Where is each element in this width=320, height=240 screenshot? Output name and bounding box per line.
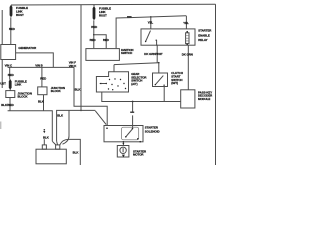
wire lower bus left — [8, 111, 53, 142]
node F2 split — [93, 34, 95, 36]
svg-text:BLOCK: BLOCK — [18, 94, 29, 98]
node clutch output — [163, 85, 164, 86]
wire junction block 2 to lower bus — [43, 95, 45, 111]
node solenoid terminal 1 — [106, 127, 108, 129]
node clutch pivot — [155, 84, 156, 85]
wire F2 split — [94, 35, 106, 48]
ignition start contact box — [141, 29, 195, 45]
svg-text:RED: RED — [91, 25, 97, 29]
wire battery funnel — [52, 141, 57, 145]
wire battery feed stem — [43, 139, 45, 145]
node battery feed dot — [44, 129, 46, 131]
node bus2 junction — [150, 16, 152, 18]
svg-text:VIN B: VIN B — [35, 63, 42, 67]
svg-text:RELAY: RELAY — [198, 38, 207, 42]
ignition switch box — [86, 49, 120, 61]
clutch switch blade — [155, 76, 163, 85]
wire right border feed — [215, 4, 217, 165]
node solenoid bottom r — [139, 141, 141, 143]
switch blade (ignition contact) — [146, 31, 151, 42]
svg-text:STARTER: STARTER — [198, 29, 212, 33]
ground blob under motor — [122, 155, 125, 158]
wire long vertical from top bus — [80, 5, 82, 111]
wire VIN bus — [8, 66, 74, 68]
wire S to solenoid — [132, 102, 134, 129]
wire left border segment upper — [1, 10, 3, 45]
relay coil — [186, 33, 189, 44]
svg-text:RED: RED — [8, 73, 14, 77]
solenoid inner contact frame — [122, 127, 139, 140]
wire solenoid to motor — [122, 142, 124, 146]
arrow to battery — [43, 131, 45, 133]
node solenoid contact b — [137, 138, 139, 140]
connector C (S wire) — [130, 111, 134, 113]
wire dk grn/wht horizontal — [114, 63, 159, 65]
gear selector switch box — [96, 72, 128, 92]
left edge smudge — [0, 122, 1, 130]
wire lower bus right + battery drop — [57, 110, 96, 141]
svg-text:RED: RED — [103, 38, 109, 42]
wire top feed bus — [11, 3, 216, 6]
starter motor circle — [120, 147, 126, 153]
svg-text:(A/T): (A/T) — [131, 82, 137, 86]
wire relay output (DK GRN) — [187, 45, 189, 90]
svg-text:RED: RED — [40, 76, 46, 80]
svg-text:(M/T): (M/T) — [171, 81, 178, 85]
svg-text:VIN K: VIN K — [69, 64, 77, 68]
node ignition contact output — [156, 40, 157, 41]
node lower bus / long vertical — [80, 110, 82, 112]
node solenoid bottom m — [123, 141, 125, 143]
svg-text:VIN C: VIN C — [5, 63, 13, 67]
solenoid blade — [126, 129, 133, 137]
clutch start switch box — [153, 73, 168, 87]
fusible link F3 (lower left) — [9, 79, 12, 90]
svg-text:SWITCH: SWITCH — [121, 51, 132, 55]
wire F3 to junction block — [9, 89, 11, 90]
gear selector contacts — [100, 83, 106, 85]
starter motor bracket — [117, 146, 129, 158]
svg-text:YEL: YEL — [148, 20, 154, 24]
svg-text:BLK: BLK — [57, 114, 64, 118]
wire to clutch switch — [158, 63, 160, 73]
wire YEL drop to relay — [185, 16, 188, 33]
svg-text:BLK: BLK — [38, 100, 45, 104]
svg-text:RUST: RUST — [99, 13, 107, 17]
junction block 2 box — [38, 87, 47, 95]
wire VIN B drop — [41, 67, 43, 87]
node solenoid S terminal — [132, 128, 134, 130]
fusible link F1 (top left) — [10, 5, 13, 17]
svg-text:YEL: YEL — [183, 21, 189, 25]
pass-key decoder module box — [181, 90, 195, 108]
wire VIN C drop — [9, 67, 11, 79]
svg-text:BLOCK: BLOCK — [51, 89, 62, 93]
node solenoid contact a — [125, 136, 127, 138]
wire junction block 1 to lower bus — [9, 98, 11, 111]
wire VIN bus right leg to solenoid — [74, 67, 107, 125]
starter solenoid box — [104, 126, 143, 142]
connector C (bus2 inline) — [127, 16, 132, 18]
wire ignition contact output down — [156, 40, 159, 63]
node relay coil top — [186, 31, 188, 33]
svg-text:SOLENOID: SOLENOID — [145, 129, 160, 133]
wire to gear selector — [113, 65, 115, 72]
wire F2 down — [93, 20, 95, 35]
svg-text:BLK: BLK — [43, 135, 50, 139]
fusible link F2 (top middle) — [93, 4, 95, 6]
node clutch branch — [158, 62, 160, 64]
svg-text:GENERATOR: GENERATOR — [18, 46, 37, 50]
node motor feed — [123, 143, 125, 145]
wire clutch output join — [163, 87, 165, 102]
svg-text:BLK/RED: BLK/RED — [1, 103, 14, 107]
svg-text:ENABLE: ENABLE — [198, 33, 210, 37]
svg-text:BLK: BLK — [73, 151, 80, 155]
wire generator output — [16, 53, 54, 68]
node S branch — [132, 101, 134, 103]
svg-text:DK GRN/WHT: DK GRN/WHT — [144, 52, 163, 56]
wire gear selector output to pass-key — [102, 92, 181, 102]
wire battery negative right — [60, 139, 81, 165]
svg-text:MODULE: MODULE — [198, 97, 210, 101]
battery terminal 2 — [56, 145, 60, 149]
generator G1 box — [1, 45, 16, 60]
node blade pivot — [145, 41, 146, 42]
wire diagonal to solenoid — [95, 111, 106, 125]
svg-text:RED: RED — [9, 27, 15, 31]
wire left border segment lower — [1, 60, 3, 89]
junction block 1 box — [6, 91, 15, 98]
wire battery tie from bus — [63, 110, 70, 144]
svg-text:UST: UST — [0, 82, 6, 86]
svg-text:RED: RED — [90, 38, 96, 42]
svg-text:LINK: LINK — [15, 83, 23, 87]
svg-text:MOTOR: MOTOR — [133, 153, 144, 157]
node relay coil bottom — [186, 43, 188, 45]
svg-text:DK GRN: DK GRN — [182, 53, 193, 57]
svg-text:BLK: BLK — [75, 87, 82, 91]
battery box — [36, 149, 66, 164]
wire ignition bus2 riser — [116, 16, 186, 48]
wire F1 to generator — [10, 17, 12, 44]
battery terminal 1 — [42, 145, 46, 149]
svg-text:RUST: RUST — [16, 13, 24, 17]
wire bus2 drop to ignition contact — [150, 17, 152, 29]
